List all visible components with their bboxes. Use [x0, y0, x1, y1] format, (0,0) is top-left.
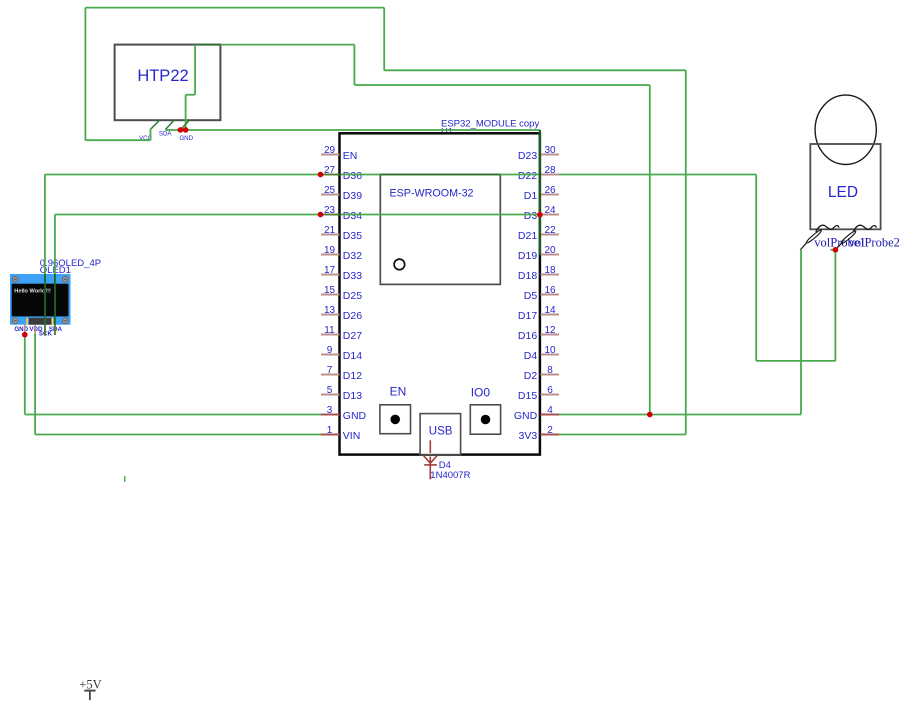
module pin 27 D36 (left): [321, 165, 362, 182]
wire D34 row horizontal: [55, 214, 539, 216]
wire upper horizontal to right: [384, 69, 686, 71]
svg-text:26: 26: [544, 185, 556, 196]
svg-text:D19: D19: [518, 250, 537, 262]
svg-text:IO0: IO0: [471, 386, 491, 400]
svg-text:D15: D15: [518, 390, 537, 402]
module pin 1 VIN (left): [321, 425, 360, 442]
module pin 8 D2 (right): [524, 365, 559, 382]
diode D4 1N4007R: [424, 440, 471, 481]
svg-text:D34: D34: [343, 210, 362, 222]
svg-text:D13: D13: [343, 390, 362, 402]
svg-text:ESP-WROOM-32: ESP-WROOM-32: [390, 188, 474, 200]
wire VCC horizontal left: [85, 139, 150, 141]
svg-text:D12: D12: [343, 370, 362, 382]
svg-text:30: 30: [544, 145, 556, 156]
svg-text:HTP22: HTP22: [137, 67, 188, 85]
svg-text:15: 15: [324, 285, 336, 296]
wire step down: [353, 45, 355, 85]
module pin 25 D39 (left): [321, 185, 362, 202]
svg-text:29: 29: [324, 145, 336, 156]
module pin 17 D33 (left): [321, 265, 362, 282]
module pin 9 D14 (left): [321, 345, 362, 362]
wire drop to GND row: [649, 85, 651, 415]
wire left riser: [84, 8, 86, 141]
svg-text:20: 20: [544, 245, 556, 256]
module pin 5 D13 (left): [321, 385, 362, 402]
svg-text:D39: D39: [343, 190, 362, 202]
svg-text:6: 6: [547, 385, 553, 396]
OLED pin GND stub: [24, 325, 26, 334]
svg-text:9: 9: [327, 345, 333, 356]
svg-text:D35: D35: [343, 230, 362, 242]
module pin 13 D26 (left): [321, 305, 362, 322]
svg-text:2: 2: [547, 425, 553, 436]
svg-text:22: 22: [544, 225, 556, 236]
wire VIN row: [35, 434, 321, 436]
svg-text:D33: D33: [343, 270, 362, 282]
wire lower horizontal: [756, 360, 835, 362]
svg-text:18: 18: [544, 265, 556, 276]
wire SDA vertical: [54, 215, 56, 335]
svg-text:21: 21: [324, 225, 336, 236]
wire GND row left: [25, 414, 321, 416]
svg-text:7: 7: [327, 365, 333, 376]
module pin 26 D1 (right): [524, 185, 559, 202]
wire HTP22 top edge run: [195, 44, 354, 46]
wire along module right border: [539, 130, 541, 255]
svg-text:GND: GND: [14, 326, 28, 333]
wire SDA/GND horizontal to module: [166, 129, 540, 131]
module pin 23 D34 (left): [321, 205, 362, 222]
svg-text:13: 13: [324, 305, 336, 316]
svg-text:GND: GND: [179, 135, 193, 142]
svg-text:GND: GND: [343, 410, 367, 422]
svg-text:10: 10: [544, 345, 556, 356]
svg-text:D36: D36: [343, 170, 362, 182]
svg-text:25: 25: [324, 185, 336, 196]
module pin 12 D16 (right): [518, 325, 559, 342]
svg-text:D32: D32: [343, 250, 362, 262]
svg-text:GND: GND: [514, 410, 538, 422]
wire GND row right: [559, 414, 801, 416]
module pin 20 D19 (right): [518, 245, 559, 262]
voltage probe volProbe2: [835, 230, 899, 250]
OLED display OLED1 0.96OLED_4P: [10, 258, 101, 337]
wire OLED GND vertical: [24, 335, 26, 415]
module pin 14 D17 (right): [518, 305, 559, 322]
wire OLED VDD vertical: [34, 334, 36, 435]
USB connector: [420, 414, 461, 455]
wire top drop: [383, 8, 385, 71]
svg-text:D17: D17: [518, 310, 537, 322]
wire HTP22 VCC pin diagonal: [151, 120, 160, 129]
module pin 6 D15 (right): [518, 385, 559, 402]
sensor HTP22 body: [115, 45, 221, 121]
module pin 30 D23 (right): [518, 145, 559, 162]
wire riser to volProbe2: [834, 250, 836, 361]
junction volProbe2: [833, 247, 839, 253]
wire riser to volProbe1: [800, 250, 802, 415]
module U1 ESP32_MODULE copy body: [340, 118, 540, 454]
module pin 22 D21 (right): [518, 225, 559, 242]
svg-text:8: 8: [547, 365, 553, 376]
wire 3V3 row: [559, 434, 686, 436]
HTP22 pin GND label: [179, 135, 193, 142]
svg-text:EN: EN: [343, 150, 358, 162]
wire top horizontal: [85, 7, 384, 9]
wire HTP22 inner jog: [186, 94, 196, 96]
module pin 29 EN (left): [321, 145, 357, 162]
ESP-WROOM-32 sub-module: [380, 174, 500, 284]
svg-text:12: 12: [544, 325, 556, 336]
wire HTP22 inner drop: [185, 95, 187, 130]
module pin 21 D35 (left): [321, 225, 362, 242]
svg-text:28: 28: [544, 165, 556, 176]
svg-text:3: 3: [327, 405, 333, 416]
wire fragment: [124, 476, 126, 482]
junction pin24/D3: [537, 212, 543, 218]
module pin 16 D5 (right): [524, 285, 559, 302]
svg-text:11: 11: [324, 325, 335, 336]
wire volProbe2 stub tick: [830, 249, 835, 251]
svg-text:VIN: VIN: [343, 430, 361, 442]
OLED pin VDD stub: [34, 325, 36, 334]
svg-text:D14: D14: [343, 350, 362, 362]
wire D22 row right: [559, 174, 756, 176]
svg-text:D16: D16: [518, 330, 537, 342]
junction HTP22 GND pin: [178, 127, 184, 133]
svg-text:EN: EN: [390, 384, 407, 398]
svg-text:USB: USB: [429, 425, 453, 437]
svg-text:D26: D26: [343, 310, 362, 322]
junction pin27/D36: [318, 172, 324, 178]
svg-text:D18: D18: [518, 270, 537, 282]
wire D22 drop: [755, 175, 757, 361]
junction pin23/D34: [318, 212, 324, 218]
module pin 7 D12 (left): [321, 365, 362, 382]
button EN: [380, 384, 411, 433]
svg-text:3V3: 3V3: [519, 430, 538, 442]
voltage probe volProbe1: [800, 229, 865, 250]
wire SCK vertical: [44, 175, 46, 336]
svg-text:19: 19: [324, 245, 336, 256]
svg-text:D22: D22: [518, 170, 537, 182]
module pin 4 GND (right): [514, 405, 559, 422]
svg-text:+5V: +5V: [79, 678, 101, 692]
svg-text:5: 5: [327, 385, 333, 396]
button IO0: [470, 386, 500, 435]
svg-text:D3: D3: [524, 210, 538, 222]
svg-text:16: 16: [544, 285, 556, 296]
module pin 24 D3 (right): [524, 205, 559, 222]
module pin 19 D32 (left): [321, 245, 362, 262]
svg-text:D23: D23: [518, 150, 537, 162]
junction GND net: [647, 412, 653, 418]
power +5V: [79, 678, 101, 701]
svg-text:1: 1: [327, 425, 333, 436]
wire HTP22 inner vertical: [194, 45, 196, 95]
wire HTP22 SDA pin diagonal: [165, 120, 174, 130]
svg-text:D4: D4: [524, 350, 538, 362]
svg-text:D21: D21: [518, 230, 537, 242]
svg-text:D1: D1: [524, 190, 538, 202]
wire HTP22 GND pin diagonal: [180, 120, 189, 130]
module pin 18 D18 (right): [518, 265, 559, 282]
svg-text:D5: D5: [524, 290, 538, 302]
module pin 3 GND (left): [321, 405, 367, 422]
module pin 15 D25 (left): [321, 285, 362, 302]
svg-text:volProbe2: volProbe2: [849, 235, 900, 249]
wire VCC drop: [150, 129, 152, 141]
svg-text:ESP32_MODULE copy: ESP32_MODULE copy: [441, 118, 539, 129]
svg-text:D27: D27: [343, 330, 362, 342]
svg-text:17: 17: [324, 265, 336, 276]
LED lamp: [810, 95, 880, 232]
module pin 11 D27 (left): [321, 325, 362, 342]
svg-text:1N4007R: 1N4007R: [430, 470, 470, 481]
wire D36 row horizontal: [45, 174, 539, 176]
wire mid horizontal: [354, 84, 649, 86]
junction HTP22 inner: [183, 127, 189, 133]
svg-text:D25: D25: [343, 290, 362, 302]
svg-text:24: 24: [544, 205, 556, 216]
module pin 2 3V3 (right): [519, 425, 559, 442]
svg-text:SDA: SDA: [159, 130, 173, 137]
HTP22 pin SDA label: [159, 130, 173, 137]
svg-text:4: 4: [547, 405, 553, 416]
junction OLED GND: [22, 332, 28, 338]
module pin 28 D22 (right): [518, 165, 559, 182]
wire right drop to 3V3: [685, 70, 687, 434]
svg-text:14: 14: [544, 305, 556, 316]
HTP22 pin VCC label: [139, 135, 153, 142]
module pin 10 D4 (right): [524, 345, 559, 362]
svg-text:D2: D2: [524, 370, 538, 382]
svg-text:LED: LED: [828, 184, 858, 201]
